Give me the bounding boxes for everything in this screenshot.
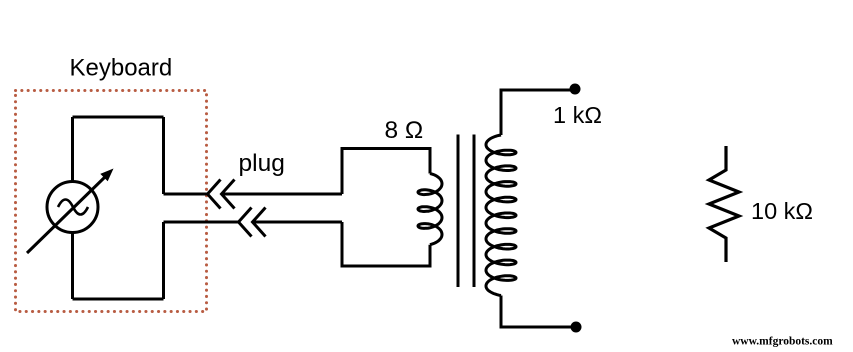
transformer primary box wires — [342, 149, 430, 195]
wire top lead to plug — [164, 193, 208, 196]
AC source variable arrow — [27, 176, 106, 253]
wire bottom plug to transformer — [253, 221, 343, 224]
wire top plug to transformer — [222, 193, 343, 196]
transformer core bar right — [473, 135, 476, 288]
plug top connector chevrons — [208, 180, 221, 209]
transformer core bar left — [457, 135, 460, 288]
terminal dot bottom — [571, 322, 582, 333]
wire keyboard loop right lower — [162, 222, 165, 299]
svg-text:8 Ω: 8 Ω — [385, 117, 424, 144]
transformer T1 primary coil 8 ohm — [418, 174, 442, 245]
svg-text:Keyboard: Keyboard — [70, 55, 173, 82]
svg-text:plug: plug — [239, 150, 285, 177]
terminal dot top — [570, 84, 581, 95]
resistor R1 10 kohm — [709, 146, 739, 262]
wire bottom lead to plug — [164, 221, 239, 224]
wire keyboard loop bottom — [73, 298, 164, 301]
svg-text:10 kΩ: 10 kΩ — [751, 198, 813, 224]
wire keyboard loop top — [73, 116, 164, 119]
wire keyboard loop left lower — [71, 233, 74, 300]
wire keyboard loop right upper — [162, 117, 165, 194]
AC source sine wave — [58, 200, 88, 215]
svg-text:www.mfgrobots.com: www.mfgrobots.com — [732, 336, 833, 348]
keyboard enclosure dotted box — [16, 91, 207, 312]
wire secondary top — [501, 90, 574, 135]
plug bottom connector chevrons — [239, 208, 252, 237]
svg-text:1 kΩ: 1 kΩ — [553, 102, 602, 128]
wire keyboard loop left upper — [71, 117, 74, 181]
wire secondary bottom — [501, 296, 575, 328]
AC source V1 circle — [47, 182, 98, 233]
transformer T1 secondary coil — [486, 135, 516, 296]
